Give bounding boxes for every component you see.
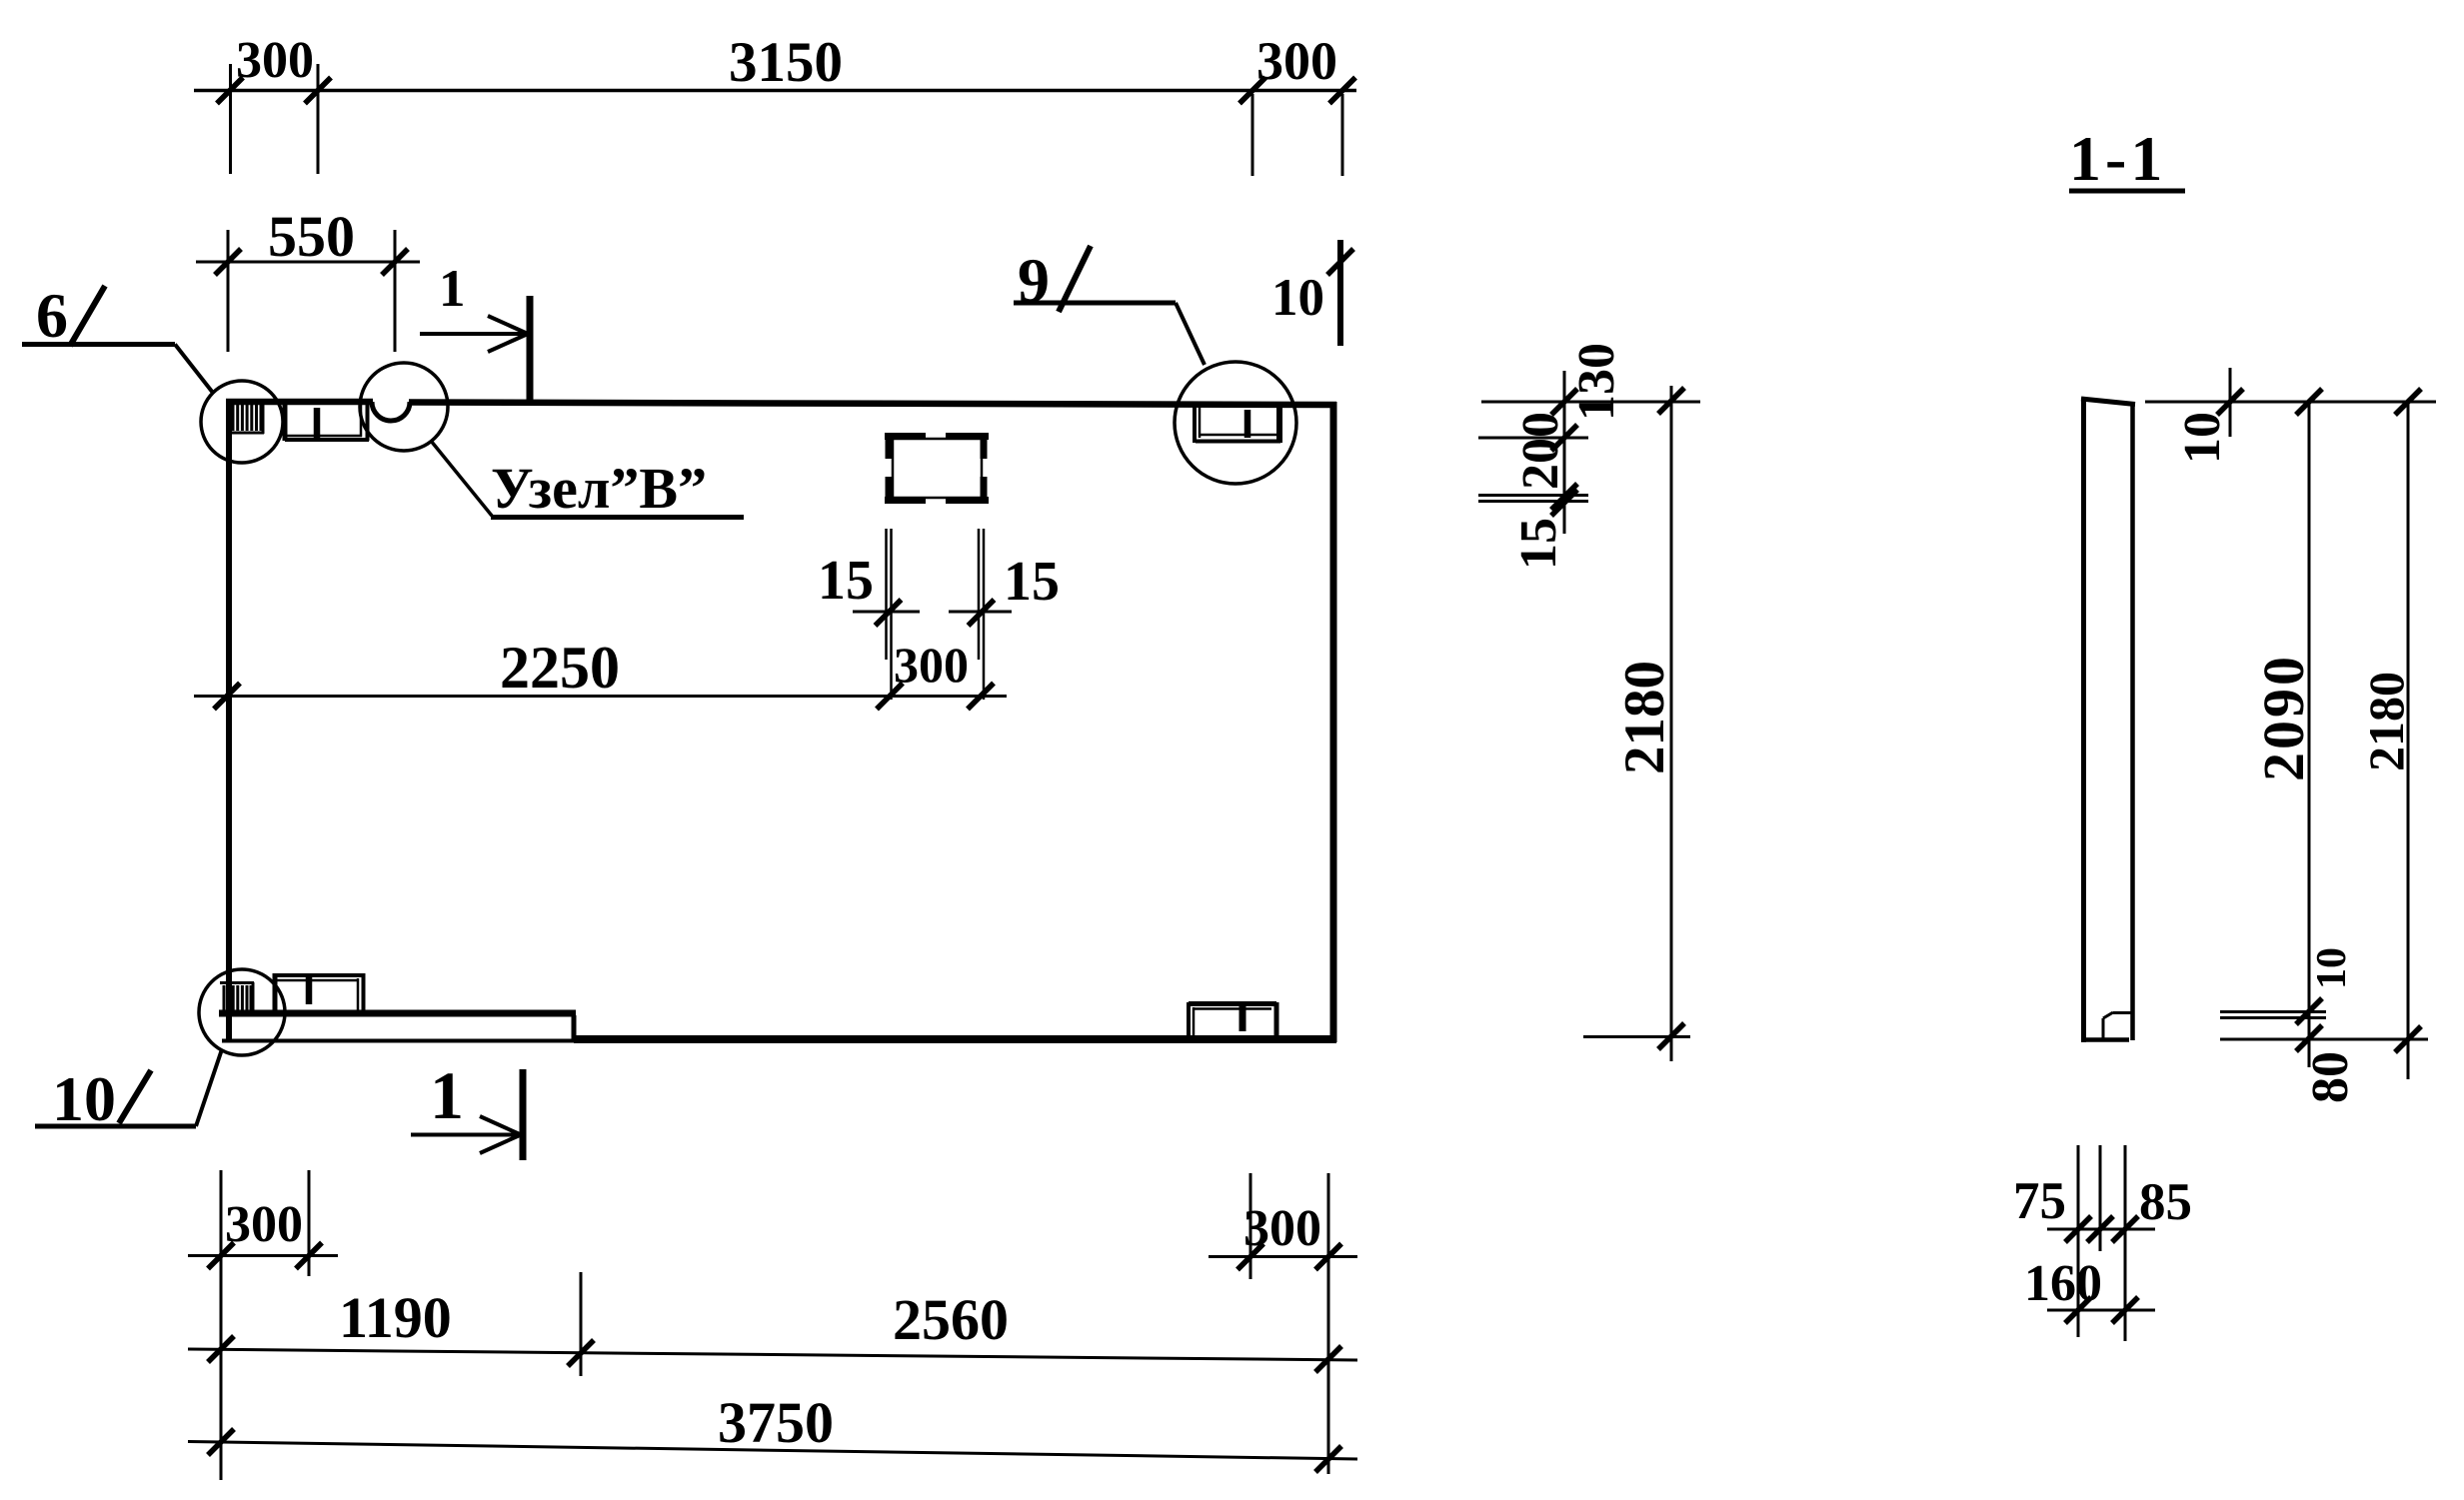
svg-text:10: 10 [2309, 947, 2355, 989]
svg-text:1190: 1190 [339, 1285, 452, 1350]
svg-text:200: 200 [1512, 412, 1569, 490]
svg-text:300: 300 [1243, 1200, 1321, 1257]
svg-text:Узел”В”: Узел”В” [491, 456, 707, 521]
svg-text:300: 300 [894, 637, 969, 693]
svg-text:3750: 3750 [718, 1390, 834, 1455]
svg-text:10: 10 [52, 1063, 116, 1134]
svg-text:3150: 3150 [729, 31, 843, 94]
svg-text:6: 6 [36, 280, 68, 351]
svg-text:10: 10 [2174, 412, 2231, 464]
svg-text:2180: 2180 [1613, 661, 1676, 774]
svg-text:300: 300 [236, 32, 314, 89]
svg-text:300: 300 [225, 1196, 303, 1253]
svg-text:1-1: 1-1 [2069, 123, 2166, 194]
svg-text:75: 75 [2013, 1172, 2066, 1230]
svg-text:2180: 2180 [2358, 672, 2414, 771]
svg-text:2250: 2250 [500, 635, 620, 701]
svg-text:80: 80 [2302, 1051, 2359, 1103]
svg-text:15: 15 [818, 550, 874, 612]
svg-text:85: 85 [2139, 1173, 2192, 1231]
svg-text:550: 550 [268, 204, 355, 269]
svg-text:300: 300 [1256, 31, 1337, 91]
svg-text:15: 15 [1004, 551, 1060, 613]
svg-text:1: 1 [439, 260, 466, 318]
svg-text:160: 160 [2024, 1255, 2102, 1312]
svg-text:2560: 2560 [893, 1287, 1009, 1352]
svg-text:1: 1 [430, 1057, 464, 1133]
svg-text:2090: 2090 [2251, 654, 2316, 781]
svg-text:10: 10 [1271, 269, 1324, 327]
svg-text:130: 130 [1568, 343, 1625, 421]
svg-text:15: 15 [1510, 518, 1567, 570]
